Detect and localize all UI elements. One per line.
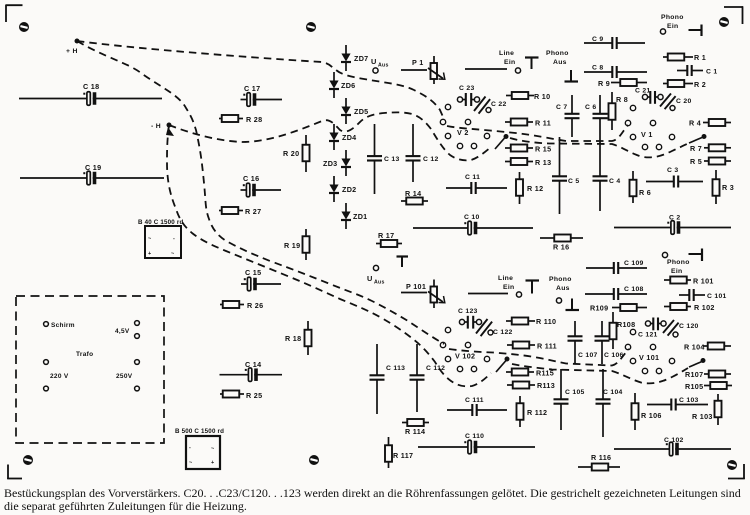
svg-text:C 105: C 105 [565, 389, 585, 396]
node +H [66, 39, 80, 56]
resistor R7 [690, 144, 731, 153]
resistor R117 [385, 437, 413, 468]
zener diode ZD5 [341, 98, 368, 124]
svg-text:R 10: R 10 [534, 92, 550, 101]
capacitor C11 [446, 174, 507, 194]
board corner mark top-right [724, 6, 743, 24]
heater wire end dot near R4 [689, 134, 707, 143]
svg-text:C 21: C 21 [635, 88, 651, 95]
capacitor C9 [584, 36, 645, 49]
svg-text:C 107: C 107 [578, 352, 598, 359]
solder lug Line Ein (top) [525, 58, 539, 70]
resistor R112 [517, 396, 548, 427]
capacitor C10 [413, 214, 533, 235]
svg-text:ZD5: ZD5 [354, 107, 368, 116]
capacitor C16 [241, 174, 282, 197]
svg-text:C 3: C 3 [667, 167, 678, 174]
resistor R106 [632, 393, 662, 430]
svg-text:-: - [189, 445, 191, 451]
terminal Phono Ein (bottom) [662, 252, 689, 275]
svg-text:C 23: C 23 [459, 85, 475, 92]
resistor R1 [663, 53, 706, 62]
svg-text:R107: R107 [685, 370, 703, 379]
svg-text:C 4: C 4 [609, 178, 620, 185]
svg-text:R 17: R 17 [378, 231, 394, 240]
svg-text:R 101: R 101 [693, 277, 714, 286]
svg-text:C 16: C 16 [243, 174, 259, 183]
svg-text:C 2: C 2 [669, 215, 680, 222]
tube socket V102 [440, 327, 489, 371]
svg-text:V 2: V 2 [457, 128, 469, 137]
resistor R10 [506, 92, 550, 101]
capacitor C2 [614, 215, 731, 235]
resistor R101 [664, 277, 714, 286]
svg-text:R 117: R 117 [393, 451, 413, 460]
capacitor C17 [241, 84, 283, 106]
mounting hole bottom-left [23, 456, 32, 465]
svg-text:R109: R109 [590, 304, 608, 313]
capacitor C6 [585, 95, 608, 137]
svg-text:ZD1: ZD1 [353, 212, 367, 221]
svg-text:C 10: C 10 [464, 214, 480, 221]
solder lug Phono Aus (top) [565, 70, 579, 82]
tube socket V101 [625, 329, 674, 373]
heater wire from +H to V2/V1 (upper dashed) [77, 41, 444, 119]
heater wire from -H (lower dashed) [169, 112, 491, 160]
resistor R18 [285, 321, 312, 355]
svg-text:C 15: C 15 [245, 268, 261, 277]
svg-text:~: ~ [189, 460, 193, 466]
svg-text:ZD3: ZD3 [323, 159, 337, 168]
resistor R105 [685, 382, 732, 391]
resistor R16 [540, 235, 583, 252]
svg-text:C 19: C 19 [85, 163, 101, 172]
svg-text:R 104: R 104 [684, 343, 705, 352]
svg-text:R 3: R 3 [722, 183, 734, 192]
svg-text:R 28: R 28 [246, 115, 262, 124]
mounting hole top-left [19, 23, 28, 32]
capacitor C102 [614, 437, 731, 456]
capacitor C18 [19, 82, 162, 105]
svg-text:Ein: Ein [503, 284, 514, 291]
svg-text:ZD6: ZD6 [341, 81, 355, 90]
svg-text:R 111: R 111 [537, 342, 557, 351]
svg-text:C 22: C 22 [491, 101, 507, 108]
svg-text:R 26: R 26 [247, 301, 263, 310]
capacitor C121 [638, 318, 666, 339]
svg-text:R 14: R 14 [405, 189, 421, 198]
svg-text:C 123: C 123 [458, 308, 478, 315]
svg-text:R 6: R 6 [639, 188, 651, 197]
svg-text:R 27: R 27 [245, 207, 261, 216]
terminal U Aus (top) [371, 57, 389, 73]
svg-text:R108: R108 [617, 320, 635, 329]
svg-text:Bestückungsplan des Vorverstär: Bestückungsplan des Vorverstärkers. C20.… [4, 486, 741, 500]
resistor R113 [507, 381, 555, 390]
svg-text:Phono: Phono [546, 50, 569, 57]
svg-text:C 104: C 104 [603, 389, 623, 396]
zener diode ZD6 [329, 72, 355, 98]
svg-text:C 7: C 7 [556, 104, 567, 111]
svg-text:R 102: R 102 [694, 303, 715, 312]
svg-text:R 9: R 9 [598, 79, 610, 88]
capacitor C13 [367, 124, 400, 194]
resistor R116 [578, 453, 620, 471]
resistor R17 [376, 231, 402, 247]
svg-text:C 121: C 121 [638, 332, 658, 339]
potentiometer P101 [401, 280, 445, 309]
svg-text:die separat geführten Zuleitun: die separat geführten Zuleitungen für di… [4, 499, 247, 513]
svg-text:Phono: Phono [549, 276, 572, 283]
capacitor C23 [457, 85, 479, 106]
resistor R25 [220, 391, 262, 401]
svg-text:R 11: R 11 [535, 119, 551, 128]
resistor R5 [690, 157, 731, 166]
svg-text:C 109: C 109 [624, 260, 644, 267]
tube socket V1 [625, 105, 674, 149]
svg-text:R 114: R 114 [405, 427, 425, 436]
svg-text:R 106: R 106 [641, 411, 662, 420]
terminal Line Ein (top) [465, 50, 521, 73]
resistor R104 [684, 343, 731, 352]
svg-text:Aus: Aus [553, 59, 567, 66]
svg-text:P 101: P 101 [406, 282, 426, 291]
svg-text:220 V: 220 V [50, 373, 69, 380]
svg-text:C 17: C 17 [244, 84, 260, 93]
svg-text:R 110: R 110 [536, 317, 556, 326]
svg-text:U: U [367, 274, 373, 283]
zener diode ZD7 [341, 45, 368, 71]
svg-text:+: + [148, 251, 152, 257]
svg-text:+: + [211, 460, 215, 466]
solder lug near R17 [397, 257, 409, 268]
bridge rectifier B500C1500 [175, 428, 224, 469]
svg-text:Line: Line [499, 50, 514, 57]
svg-text:Line: Line [498, 275, 513, 282]
svg-text:R 7: R 7 [690, 144, 702, 153]
capacitor C8 [584, 65, 647, 79]
svg-text:C 13: C 13 [384, 156, 400, 163]
capacitor C105 [554, 369, 585, 430]
svg-text:R 18: R 18 [285, 334, 301, 343]
resistor R26 [220, 301, 263, 310]
resistor R20 [283, 135, 310, 172]
svg-text:R 12: R 12 [527, 184, 543, 193]
svg-text:C 101: C 101 [707, 293, 727, 300]
capacitor C5 [552, 137, 579, 214]
resistor R114 [402, 419, 429, 436]
svg-text:R 103: R 103 [692, 412, 713, 421]
svg-text:ZD7: ZD7 [354, 54, 368, 63]
terminal U Aus (bottom) [367, 265, 385, 285]
svg-text:C 102: C 102 [664, 437, 684, 444]
svg-text:C 18: C 18 [83, 82, 99, 91]
capacitor C113 [370, 344, 406, 414]
svg-text:C 106: C 106 [604, 352, 624, 359]
potentiometer P1 [401, 56, 445, 84]
svg-text:B 40 C 1500 rd: B 40 C 1500 rd [138, 219, 183, 226]
capacitor C19 [20, 163, 164, 185]
svg-text:C 5: C 5 [568, 178, 579, 185]
heater junction dot near V2 [495, 134, 509, 149]
zener diode ZD2 [329, 176, 356, 202]
svg-text:V 102: V 102 [455, 352, 475, 361]
svg-text:R 19: R 19 [284, 241, 300, 250]
resistor R12 [516, 172, 543, 204]
svg-text:C 122: C 122 [493, 329, 513, 336]
svg-text:C 120: C 120 [679, 323, 699, 330]
resistor R115 [506, 369, 554, 378]
resistor R111 [507, 342, 557, 351]
svg-text:C 112: C 112 [426, 365, 445, 372]
heater wire lower run to V1 [510, 138, 688, 157]
board corner mark bottom-right [728, 464, 745, 479]
capacitor C12 [406, 124, 439, 182]
heater wire -H down to bottom half (dashed) [167, 125, 491, 386]
capacitor C123 [458, 308, 482, 329]
svg-text:+ H: + H [66, 48, 78, 55]
svg-text:C 110: C 110 [465, 433, 484, 440]
terminal Phono Aus (bottom) [549, 276, 572, 303]
svg-text:C 20: C 20 [676, 98, 692, 105]
capacitor C3 [646, 167, 703, 188]
svg-text:C 8: C 8 [592, 65, 603, 72]
resistor R109 [590, 304, 647, 313]
resistor R6 [630, 171, 652, 203]
tube socket V2 [440, 104, 489, 148]
resistor R110 [506, 317, 556, 326]
svg-text:R 20: R 20 [283, 149, 299, 158]
svg-text:250V: 250V [116, 373, 133, 380]
mounting hole bottom-right [727, 461, 736, 470]
zener diode ZD4 [329, 124, 356, 150]
svg-text:C 108: C 108 [624, 286, 644, 293]
resistor R8 [609, 92, 629, 130]
capacitor C104 [596, 369, 623, 437]
capacitor C101 [679, 289, 727, 301]
zener diode ZD1 [341, 203, 367, 229]
resistor R4 [689, 119, 731, 128]
capacitor C21 [635, 88, 663, 104]
capacitor C1 [677, 65, 717, 76]
node -H [151, 123, 174, 137]
resistor R3 [713, 170, 735, 204]
capacitor C7 [556, 95, 580, 137]
heater wire V2 to V1 upper run [447, 125, 628, 141]
svg-text:ZD4: ZD4 [342, 133, 356, 142]
svg-text:4,5V: 4,5V [115, 328, 130, 335]
zener diode ZD3 [323, 150, 351, 176]
svg-text:R 2: R 2 [694, 80, 706, 89]
heater wire V102 pad run (dashed) [449, 349, 629, 366]
svg-text:C 113: C 113 [386, 365, 405, 372]
heater wire +H down to bottom half (dashed) [77, 41, 444, 344]
svg-text:R 8: R 8 [616, 95, 628, 104]
svg-text:Phono: Phono [667, 259, 690, 266]
svg-text:C 103: C 103 [679, 397, 699, 404]
svg-text:R113: R113 [537, 381, 555, 390]
capacitor C14 [220, 360, 283, 381]
svg-text:R 112: R 112 [527, 408, 547, 417]
resistor R9 [598, 79, 647, 88]
svg-text:R 15: R 15 [535, 145, 551, 154]
svg-text:Aus: Aus [378, 63, 389, 69]
svg-text:R 13: R 13 [535, 158, 551, 167]
trimmer capacitor C122 [476, 319, 513, 336]
mounting hole top-right [719, 18, 728, 27]
svg-text:C 12: C 12 [423, 156, 439, 163]
capacitor C107 [568, 321, 598, 364]
svg-text:Aus: Aus [374, 280, 385, 286]
mounting hole bottom-middle [309, 456, 318, 465]
svg-text:C 11: C 11 [465, 174, 480, 181]
svg-text:V 1: V 1 [641, 130, 653, 139]
resistor R11 [505, 119, 551, 128]
solder lug Line Ein (bottom) [526, 281, 540, 294]
svg-text:R 116: R 116 [591, 453, 611, 462]
svg-text:Ein: Ein [667, 23, 678, 30]
svg-text:V 101: V 101 [639, 353, 659, 362]
heater wire lower run to V101 [512, 364, 688, 383]
trimmer capacitor C22 [474, 97, 507, 114]
heater wire end dot near R104 [689, 358, 706, 367]
svg-text:~: ~ [148, 236, 152, 242]
resistor R19 [284, 229, 310, 260]
resistor R103 [692, 394, 722, 425]
resistor R28 [219, 115, 262, 124]
resistor R107 [685, 370, 731, 379]
svg-text:R 4: R 4 [689, 119, 701, 128]
svg-text:- H: - H [151, 123, 161, 130]
capacitor C15 [241, 268, 281, 291]
svg-text:C 14: C 14 [245, 360, 261, 369]
capacitor C112 [410, 344, 446, 412]
solder lug Phono Aus (bottom) [566, 299, 580, 311]
capacitor C111 [447, 397, 507, 416]
terminal Phono Aus (top) [546, 50, 569, 66]
svg-text:~: ~ [211, 446, 215, 452]
capacitor C108 [585, 286, 647, 300]
svg-text:R 25: R 25 [246, 391, 262, 400]
resistor R108 [610, 312, 636, 349]
svg-text:R105: R105 [685, 382, 703, 391]
svg-text:Ein: Ein [504, 59, 515, 66]
svg-text:C 111: C 111 [465, 397, 484, 404]
terminal Line Ein (bottom) [468, 275, 522, 297]
svg-text:~: ~ [171, 251, 175, 257]
svg-text:C 6: C 6 [585, 104, 596, 111]
terminal Phono Ein (top) [660, 14, 683, 34]
svg-text:U: U [371, 57, 377, 66]
svg-text:R 5: R 5 [690, 157, 702, 166]
board corner mark top-left [6, 5, 23, 23]
svg-text:ZD2: ZD2 [342, 185, 356, 194]
solder lug Phono Ein (top) [689, 25, 702, 37]
svg-text:R 1: R 1 [694, 53, 706, 62]
resistor R2 [663, 80, 706, 89]
mounting hole top-middle [306, 23, 315, 32]
trimmer capacitor C20 [660, 94, 692, 111]
solder lug Phono Ein (bottom) [689, 249, 703, 262]
trimmer capacitor C120 [663, 320, 699, 337]
svg-text:B 500 C 1500 rd: B 500 C 1500 rd [175, 428, 224, 435]
svg-text:Trafo: Trafo [76, 351, 93, 358]
board corner mark bottom-left [7, 465, 22, 480]
svg-text:R 16: R 16 [553, 243, 569, 252]
resistor R15 [505, 145, 551, 154]
svg-text:Schirm: Schirm [51, 322, 75, 329]
svg-text:P 1: P 1 [412, 58, 424, 67]
svg-text:Ein: Ein [671, 268, 682, 275]
svg-text:C 9: C 9 [592, 36, 603, 43]
capacitor C4 [593, 137, 621, 211]
svg-text:Phono: Phono [661, 14, 684, 21]
capacitor C110 [418, 433, 535, 454]
svg-text:-: - [173, 236, 175, 242]
svg-text:C 1: C 1 [706, 69, 717, 76]
resistor R102 [664, 303, 715, 312]
resistor R27 [219, 207, 261, 216]
svg-text:R115: R115 [536, 369, 554, 378]
transformer Trafo [16, 296, 164, 443]
heater junction dot near V102 [496, 357, 510, 373]
capacitor C109 [586, 260, 647, 274]
bridge rectifier B40C1500 [138, 219, 183, 258]
resistor R13 [505, 158, 551, 167]
svg-text:Aus: Aus [556, 285, 570, 292]
resistor R14 [401, 189, 428, 205]
capacitor C106 [595, 321, 624, 364]
capacitor C103 [647, 397, 708, 411]
